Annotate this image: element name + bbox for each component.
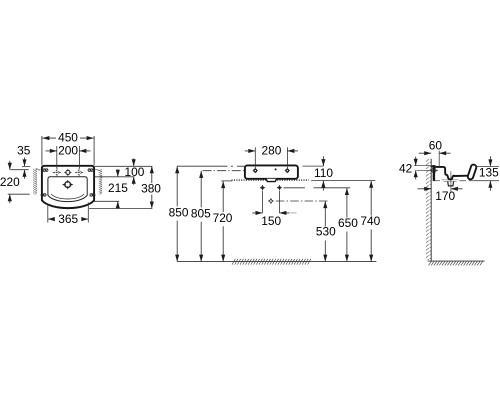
- drain centre line: [450, 171, 452, 192]
- floor hatch section: [232, 259, 311, 265]
- floor hatch (side view): [429, 261, 483, 265]
- top edge reference line (left of basin): [177, 165, 245, 167]
- dim 100 arrows: [133, 158, 135, 185]
- svg-text:42: 42: [399, 162, 413, 176]
- svg-text:35: 35: [17, 144, 31, 158]
- top edge reference line (right of basin): [303, 165, 324, 167]
- front lip (section): [467, 164, 477, 180]
- dim 60 extension line: [438, 151, 440, 167]
- dim 35 reference lines: [10, 166, 30, 169]
- underside short reference (720 level): [221, 180, 232, 182]
- dim 280 extension lines: [255, 147, 287, 169]
- dim 380 line + arrows: [151, 166, 153, 208]
- optional tap hole left (dashed): [53, 168, 62, 177]
- dim 200 extension lines: [57, 146, 80, 168]
- dim 280 line + arrows: [245, 150, 298, 152]
- svg-text:60: 60: [429, 139, 443, 153]
- floor line: [177, 261, 376, 263]
- rear fixing hole mark: [430, 168, 438, 172]
- underside reference line (right, 110 bottom / 740 top): [311, 180, 375, 182]
- dim 805 line + arrows: [200, 171, 202, 262]
- dim 170 arrows: [418, 188, 463, 190]
- svg-text:200: 200: [58, 143, 78, 157]
- dim 220 arrows: [9, 161, 11, 204]
- dim 740 line + arrows: [370, 181, 372, 262]
- dim 135 arrows: [489, 156, 491, 191]
- corner fixing mark top-right: [88, 169, 93, 172]
- basin profile (section): [431, 166, 468, 179]
- dim 215 reference line (bottom): [94, 200, 120, 202]
- fixing point diamond left: [260, 185, 265, 190]
- dim 42 arrows: [415, 157, 417, 180]
- dim 650 line + arrows: [346, 188, 348, 262]
- dim 365 extension lines: [48, 203, 89, 223]
- dotted hatch strip under basin: [232, 179, 309, 181]
- svg-text:280: 280: [261, 143, 281, 157]
- siphon level dash-dot line (530 top ref): [276, 200, 330, 202]
- hatch strip left of basin: [33, 169, 37, 195]
- dim 530 line + arrows: [324, 201, 326, 262]
- fixing-points level line (650 top ref): [284, 187, 351, 189]
- dim 380 bottom reference line: [89, 208, 152, 210]
- inner bowl top extension line (right, shared by 100/215): [95, 176, 135, 178]
- optional tap hole right (dashed): [75, 168, 84, 177]
- drain trapezoid: [266, 179, 277, 182]
- hatch strip right of basin: [99, 169, 103, 194]
- dim 450 extension lines: [42, 136, 94, 165]
- svg-text:365: 365: [58, 212, 78, 226]
- dim 60 arrows: [419, 152, 451, 154]
- svg-text:850: 850: [169, 205, 189, 219]
- dim 110 arrows: [322, 156, 324, 190]
- side fixing mark right: [90, 194, 95, 197]
- svg-text:170: 170: [435, 189, 455, 203]
- siphon diamond center: [268, 198, 273, 203]
- svg-text:135: 135: [479, 166, 499, 180]
- basin front outline: [245, 165, 298, 178]
- svg-text:220: 220: [0, 175, 20, 189]
- dim 720 line + arrows: [222, 181, 224, 262]
- dim 450 line + arrows: [42, 137, 93, 139]
- corner fixing mark top-left: [43, 169, 48, 172]
- dashed drop lines from fixing points: [263, 191, 280, 213]
- wall fixing hole left: [253, 168, 258, 173]
- inner bowl bottom arc: [51, 194, 84, 199]
- svg-text:805: 805: [191, 206, 211, 220]
- drain flange thin lines: [442, 180, 459, 182]
- wall fixing hole right: [285, 168, 290, 173]
- wall face line: [430, 159, 432, 261]
- fixing height dash-dot line (805 level): [203, 170, 245, 172]
- tap hole (center): [64, 169, 71, 176]
- dim 135 reference line top: [476, 165, 499, 167]
- plan top edge extension line (right, shared by 100/380): [95, 165, 152, 167]
- svg-text:100: 100: [124, 165, 144, 179]
- dim 850 line + arrows: [176, 166, 178, 261]
- dim 220 reference line (hatch bottom): [8, 193, 30, 195]
- svg-text:110: 110: [314, 166, 333, 180]
- dim 42 reference lines: [414, 166, 438, 171]
- svg-text:650: 650: [338, 216, 358, 230]
- overflow dot: [275, 168, 277, 170]
- dim 200 line + arrows: [46, 150, 91, 152]
- basin outer outline (plan): [42, 166, 94, 208]
- drain plug trapezoid: [448, 182, 454, 186]
- svg-text:150: 150: [261, 214, 281, 228]
- floor line (side view): [428, 260, 485, 262]
- overflow hole: [63, 180, 73, 189]
- side fixing mark left: [41, 194, 46, 197]
- svg-text:215: 215: [108, 181, 128, 195]
- dim 215 arrows: [117, 169, 119, 209]
- inner bowl outline: [48, 177, 87, 202]
- dim 150 line + arrows: [252, 212, 289, 214]
- dim 35 arrows: [24, 158, 26, 179]
- underside plane dashed line (740/135 level): [434, 180, 475, 182]
- svg-text:720: 720: [213, 211, 233, 225]
- svg-text:530: 530: [316, 225, 336, 239]
- wall hatch strip: [426, 159, 431, 260]
- svg-text:740: 740: [360, 214, 380, 228]
- rear mounting tab: [433, 167, 435, 181]
- svg-text:380: 380: [141, 181, 161, 195]
- fixing point diamond right: [277, 185, 282, 190]
- dim 365 line + arrows: [48, 218, 89, 220]
